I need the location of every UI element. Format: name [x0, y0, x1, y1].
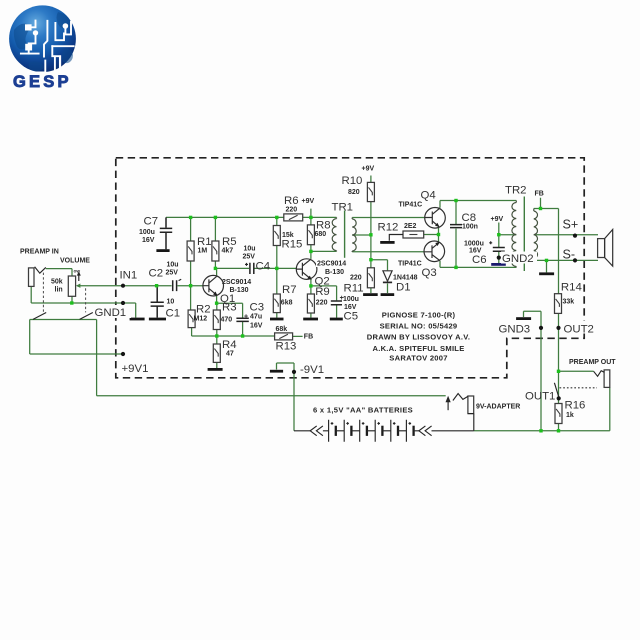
- svg-text:50k: 50k: [51, 279, 63, 286]
- svg-text:A.K.A. SPITEFUL SMILE: A.K.A. SPITEFUL SMILE: [372, 344, 464, 353]
- svg-text:lin: lin: [55, 287, 63, 294]
- svg-text:R8: R8: [316, 220, 331, 232]
- svg-text:C4: C4: [256, 261, 271, 273]
- svg-text:820: 820: [348, 189, 360, 196]
- svg-text:220: 220: [286, 207, 298, 214]
- svg-text:R6: R6: [284, 195, 299, 207]
- svg-text:PREAMP IN: PREAMP IN: [20, 249, 59, 256]
- svg-text:VOLUME: VOLUME: [60, 258, 90, 265]
- svg-text:R7: R7: [282, 284, 297, 296]
- svg-text:9V-ADAPTER: 9V-ADAPTER: [476, 404, 520, 411]
- svg-text:Q1: Q1: [220, 293, 235, 305]
- svg-text:PIGNOSE 7-100-(R): PIGNOSE 7-100-(R): [382, 311, 456, 320]
- svg-text:33k: 33k: [563, 299, 575, 306]
- svg-text:100n: 100n: [462, 224, 478, 231]
- svg-text:TR1: TR1: [332, 202, 354, 214]
- svg-text:Q3: Q3: [422, 267, 437, 279]
- svg-text:+ 47u: + 47u: [244, 314, 262, 321]
- svg-text:10: 10: [167, 299, 175, 306]
- svg-text:16V: 16V: [142, 237, 155, 244]
- svg-text:25V: 25V: [166, 270, 179, 277]
- svg-text:2SC9014: 2SC9014: [222, 279, 251, 286]
- svg-text:R5: R5: [222, 236, 237, 248]
- svg-text:68k: 68k: [276, 326, 288, 333]
- svg-text:D1: D1: [396, 282, 411, 294]
- svg-text:4k7: 4k7: [222, 248, 234, 255]
- svg-text:GND3: GND3: [499, 324, 531, 336]
- svg-text:2E2: 2E2: [404, 223, 417, 230]
- svg-text:16V: 16V: [344, 304, 357, 311]
- svg-text:S+: S+: [563, 218, 579, 232]
- svg-text:C2: C2: [149, 268, 164, 280]
- svg-text:DRAWN BY LISSOVOY A.V.: DRAWN BY LISSOVOY A.V.: [367, 333, 470, 342]
- svg-text:TIP41C: TIP41C: [398, 261, 422, 268]
- svg-text:15k: 15k: [282, 232, 294, 239]
- svg-text:2SC9014: 2SC9014: [317, 261, 346, 268]
- svg-text:S-: S-: [563, 248, 576, 262]
- svg-text:IN1: IN1: [120, 270, 138, 282]
- svg-text:-9V1: -9V1: [300, 364, 324, 376]
- svg-text:SERIAL NO: 05/5429: SERIAL NO: 05/5429: [380, 322, 458, 331]
- svg-text:100u: 100u: [343, 296, 359, 303]
- svg-text:R14: R14: [561, 282, 582, 294]
- svg-text:C8: C8: [462, 212, 477, 224]
- svg-text:C3: C3: [250, 302, 265, 314]
- svg-text:10u: 10u: [244, 246, 256, 253]
- svg-text:10u: 10u: [167, 262, 179, 269]
- svg-text:6 x 1,5V "AA" BATTERIES: 6 x 1,5V "AA" BATTERIES: [313, 406, 413, 415]
- svg-text:C7: C7: [144, 216, 159, 228]
- svg-text:47: 47: [226, 351, 234, 358]
- svg-text:R13: R13: [276, 341, 297, 353]
- svg-text:+: +: [340, 295, 344, 302]
- svg-text:25V: 25V: [243, 254, 256, 261]
- svg-text:16V: 16V: [469, 248, 482, 255]
- svg-text:C1: C1: [166, 308, 181, 320]
- svg-text:R9: R9: [315, 286, 330, 298]
- svg-text:1M: 1M: [198, 248, 208, 255]
- svg-text:+9V: +9V: [491, 216, 504, 223]
- svg-text:R16: R16: [565, 399, 586, 411]
- svg-text:TIP41C: TIP41C: [399, 202, 423, 209]
- svg-text:+9V: +9V: [362, 166, 375, 173]
- svg-text:680: 680: [315, 231, 327, 238]
- svg-text:R12: R12: [378, 222, 399, 234]
- svg-text:6k8: 6k8: [281, 299, 293, 306]
- svg-text:C6: C6: [472, 254, 487, 266]
- svg-text:GND1: GND1: [95, 307, 127, 319]
- svg-text:B-130: B-130: [230, 287, 249, 294]
- svg-text:Q4: Q4: [421, 190, 436, 202]
- svg-text:OUT1: OUT1: [525, 391, 555, 403]
- svg-text:R11: R11: [344, 283, 364, 295]
- svg-text:TR2: TR2: [505, 185, 527, 197]
- svg-text:1N4148: 1N4148: [393, 275, 418, 282]
- svg-text:470: 470: [221, 317, 233, 324]
- svg-text:SARATOV 2007: SARATOV 2007: [389, 354, 447, 363]
- svg-text:FB: FB: [304, 334, 313, 341]
- svg-text:220: 220: [350, 275, 362, 282]
- svg-text:R4: R4: [222, 339, 237, 351]
- svg-text:FB: FB: [535, 191, 544, 198]
- svg-text:+9V1: +9V1: [122, 363, 149, 375]
- svg-text:R10: R10: [342, 175, 363, 187]
- svg-text:R1: R1: [197, 236, 212, 248]
- svg-text:M12: M12: [194, 316, 208, 323]
- svg-text:OUT2: OUT2: [564, 324, 594, 336]
- svg-text:PREAMP OUT: PREAMP OUT: [569, 359, 616, 366]
- svg-text:100u: 100u: [139, 229, 155, 236]
- svg-text:R2: R2: [196, 304, 211, 316]
- svg-text:GESP: GESP: [13, 73, 72, 91]
- svg-text:16V: 16V: [250, 323, 263, 330]
- svg-text:1k: 1k: [566, 412, 574, 419]
- svg-text:1000u: 1000u: [464, 241, 484, 248]
- svg-text:C5: C5: [344, 311, 359, 323]
- svg-text:220: 220: [316, 299, 328, 306]
- svg-text:+9V: +9V: [302, 198, 315, 205]
- svg-text:B-130: B-130: [325, 269, 344, 276]
- svg-text:R15: R15: [282, 239, 303, 251]
- svg-text:Q2: Q2: [315, 276, 330, 288]
- svg-text:GND2: GND2: [502, 253, 534, 265]
